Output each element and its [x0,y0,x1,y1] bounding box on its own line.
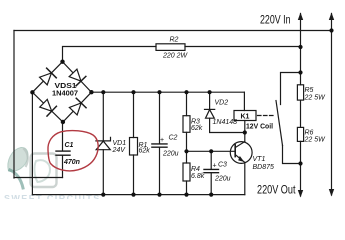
capacitor C2 leads [159,92,161,194]
wire: VD2 bottom to collector node [210,118,245,132]
dashed link K1 to contact [258,115,275,117]
relay contact blade [276,101,283,146]
wire: 220V In line B (right, straight through) [331,14,333,196]
wire: 220V In line A (left) with R5 R6 [300,14,302,85]
resistor R4 [183,163,190,181]
svg-text:6.8k: 6.8k [191,173,205,180]
resistor R6 [297,127,303,141]
wire: contact bottom [283,146,301,164]
arrow 220V Out right [329,189,334,197]
svg-text:BD875: BD875 [253,164,275,171]
diode VD2 top lead [209,92,211,109]
red highlight circle around C1 [48,131,98,171]
svg-text:220u: 220u [162,151,179,158]
svg-text:+: + [160,137,164,144]
watermark logo bottom-left [4,147,101,203]
svg-text:R6: R6 [305,130,314,137]
svg-text:22 5W: 22 5W [304,95,327,102]
svg-text:220 2W: 220 2W [162,53,189,60]
relay coil K1 [234,111,256,121]
wire: emitter down to bottom rail [244,162,246,194]
diode bridge top-left [39,68,57,86]
svg-text:R2: R2 [170,37,179,44]
arrow 220V In right [329,13,334,21]
svg-text:470n: 470n [63,159,80,166]
svg-text:22 5W: 22 5W [304,137,327,144]
capacitor C3 [204,169,219,172]
wire: left frame down [13,31,15,179]
arrow 220V Out left [298,190,303,198]
transistor VT1 [230,142,252,164]
arrow 220V In left [298,13,303,21]
svg-text:62k: 62k [139,148,151,155]
diode VD2 [205,109,215,118]
zener VD1 branch top lead [102,92,104,141]
svg-text:220u: 220u [214,176,231,183]
svg-text:R4: R4 [191,166,200,173]
svg-text:VT1: VT1 [253,156,266,163]
svg-text:R5: R5 [305,87,314,94]
wire: rail corner down to K1 [243,92,245,110]
resistor R5 [297,85,303,100]
diode bridge top-right [68,68,86,86]
svg-text:C1: C1 [65,142,74,149]
svg-text:+: + [213,163,217,170]
capacitor C2 [152,144,167,147]
diode bridge bottom-right [68,98,86,116]
svg-text:VDS1: VDS1 [55,83,77,90]
svg-text:62k: 62k [191,125,203,132]
svg-text:220V Out: 220V Out [257,183,296,197]
svg-text:12V Coil: 12V Coil [246,124,273,131]
svg-text:K1: K1 [241,114,250,121]
wire: contact branch top [281,73,301,105]
zener diode VD1 [96,137,111,149]
wire: C1 bottom lead [62,156,64,178]
capacitor C3 leads [210,151,212,194]
wire: bridge bottom vertex to C1 top [62,122,64,151]
svg-text:220V In: 220V In [260,13,291,27]
capacitor C1 [56,151,70,155]
resistor R3 [183,116,190,133]
resistor R1 leads [133,92,135,194]
svg-text:24V: 24V [112,147,127,154]
svg-text:1N4148: 1N4148 [213,119,238,126]
wire: R2 to 220V line A [185,46,301,48]
resistor R3 leads [186,92,188,151]
bridge rectifier VDS1 diamond wires [32,62,91,122]
svg-text:1N4007: 1N4007 [52,91,78,98]
svg-text:VD1: VD1 [113,140,127,147]
wire: bottom rail [32,194,244,196]
wire: top DC+ rail [91,91,244,93]
wire: K1 to collector [244,121,246,142]
svg-text:VD2: VD2 [215,100,229,107]
wire: base wire [187,150,236,152]
wire: top frame (mains B) [14,30,332,32]
wire: C1 bottom horizontal [14,177,63,179]
svg-text:C2: C2 [169,135,178,142]
node: bridge left vertex down wire [31,92,33,194]
resistor R1 [130,138,138,156]
svg-text:C3: C3 [218,162,227,169]
resistor R4 leads [186,151,188,194]
diode bridge bottom-left [39,98,57,116]
wire: bridge top vertex up to R2 line [63,47,157,62]
resistor R2 [156,44,185,51]
